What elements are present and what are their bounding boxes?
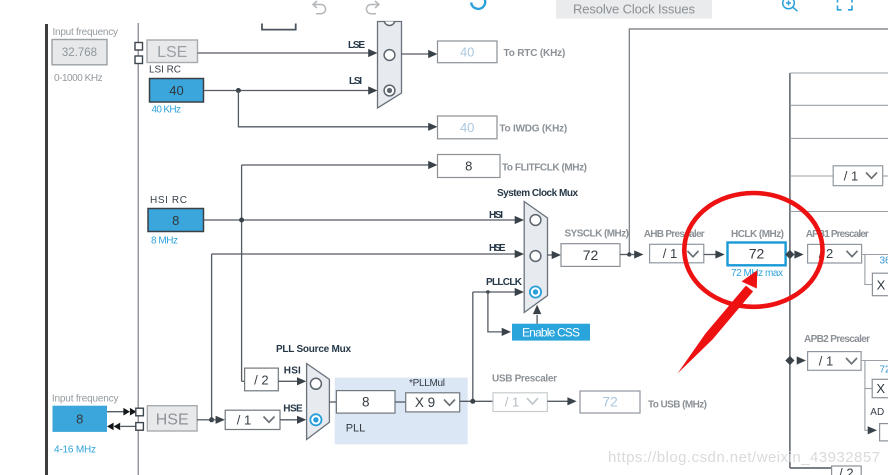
svg-text:0-1000 KHz: 0-1000 KHz: [54, 73, 103, 84]
svg-text:72: 72: [749, 246, 765, 262]
svg-text:AHB Prescaler: AHB Prescaler: [644, 229, 705, 240]
svg-text:PLL: PLL: [346, 423, 366, 435]
svg-text:40: 40: [169, 83, 183, 98]
PLL panel: [335, 378, 468, 445]
svg-text:LSE: LSE: [157, 44, 187, 61]
wire branch row 2: [790, 104, 888, 106]
wire LSI to RTC mux: [204, 90, 370, 92]
refresh icon: [471, 0, 485, 9]
wire APB1 out: [862, 254, 888, 256]
box PLL /2: [245, 368, 279, 391]
zoom-in icon: [783, 0, 798, 11]
wire PLLCLK to system mux: [473, 291, 516, 293]
mux RTC clipped third radio: [384, 22, 394, 26]
wire RTC mux output: [402, 53, 430, 55]
box LSE: [147, 40, 198, 63]
box 32.768: [52, 40, 107, 65]
svg-text:8: 8: [362, 395, 370, 410]
box To FLITFCLK value 8: [438, 155, 501, 178]
box HSI RC 8: [148, 209, 204, 232]
wire HSE riser: [211, 254, 213, 420]
radio HSI input PLL: [310, 378, 321, 389]
svg-text:*PLLMul: *PLLMul: [409, 378, 445, 389]
dropdown APB2 /1: [808, 352, 862, 371]
box HSE input frequency 8: [53, 406, 108, 432]
radio HSI input: [530, 215, 541, 226]
svg-text:72: 72: [880, 365, 888, 376]
wire HSE to input lower: [121, 425, 136, 427]
wire HSI riser (FLITF to PLL /2): [241, 165, 243, 381]
svg-text:8: 8: [76, 412, 83, 427]
svg-text:/ 2: / 2: [254, 373, 268, 388]
svg-text:36: 36: [880, 256, 888, 267]
wire PLL out to USB junction: [460, 400, 493, 402]
wire HSE box out: [197, 419, 212, 421]
button Enable CSS: [512, 324, 590, 341]
svg-text:PLL Source Mux: PLL Source Mux: [276, 344, 351, 355]
box PLL input 8: [336, 391, 395, 414]
svg-text:To USB (MHz): To USB (MHz): [648, 400, 707, 411]
wire HSE junction to /1: [212, 419, 217, 421]
svg-text:/ 1: / 1: [237, 413, 251, 428]
svg-text:40: 40: [460, 44, 474, 59]
wire AHB to HCLK: [704, 254, 716, 256]
svg-text:Input frequency: Input frequency: [53, 27, 119, 38]
wire APB2 timer branch: [865, 388, 872, 390]
svg-text:/ 1: / 1: [663, 246, 677, 261]
wire /1 to PLL mux: [280, 419, 298, 421]
svg-text:72: 72: [583, 247, 599, 263]
svg-text:HSI: HSI: [489, 210, 503, 221]
wire HSI to system mux: [204, 219, 516, 221]
wire Enable CSS up arrow: [536, 315, 538, 324]
annotation red arrow: [678, 286, 754, 374]
box LSI RC 40: [150, 79, 204, 103]
svg-text:System Clock Mux: System Clock Mux: [497, 188, 578, 199]
wire branch cortex prescaler: [790, 175, 833, 177]
svg-text:32.768: 32.768: [62, 47, 97, 59]
node HCLK diamond: [785, 250, 794, 259]
svg-text:To RTC (KHz): To RTC (KHz): [504, 48, 566, 59]
dropdown APB1 /2: [808, 244, 862, 263]
left thick border line: [45, 24, 48, 475]
svg-text:USB Prescaler: USB Prescaler: [492, 374, 557, 385]
svg-text:/ 1: / 1: [819, 354, 833, 369]
svg-text:Resolve Clock Issues: Resolve Clock Issues: [573, 2, 696, 17]
wire branch row 3: [790, 137, 888, 139]
svg-text:X: X: [877, 278, 886, 293]
wire ADC arrow: [868, 426, 877, 434]
svg-text:LSI: LSI: [349, 76, 362, 87]
svg-text:PLLCLK: PLLCLK: [486, 277, 523, 288]
radio HSE input: [530, 251, 541, 262]
box bottom /2: [832, 466, 862, 475]
mux PLL source: [307, 364, 330, 440]
wire LSI to IWDG: [238, 91, 429, 127]
dropdown cortex /1: [833, 166, 883, 186]
node SYSCLK junction: [627, 252, 631, 256]
vertical rail line: [137, 23, 139, 475]
dropdown PLLMul X9: [406, 393, 460, 412]
wire APB2 out: [861, 360, 888, 362]
svg-text:To FLITFCLK (MHz): To FLITFCLK (MHz): [502, 163, 587, 174]
box USB value 72: [580, 391, 640, 413]
box HSE: [147, 406, 197, 431]
toolbar partial box: [262, 24, 296, 30]
wire branch row 4: [790, 211, 888, 213]
svg-text:Input frequency: Input frequency: [52, 394, 119, 405]
svg-text:Enable CSS: Enable CSS: [522, 325, 580, 339]
radio LSE input: [384, 50, 395, 61]
box APB2 timer multiplier X: [872, 379, 888, 397]
wire bus bottom run: [790, 467, 832, 469]
svg-text:/ 2: / 2: [839, 466, 853, 475]
HSE pin square upper: [136, 408, 144, 416]
dropdown AHB /1: [650, 244, 704, 262]
wire USB /1 to value: [547, 400, 567, 402]
svg-text:HCLK (MHz): HCLK (MHz): [731, 229, 784, 240]
wire HCLK to bus: [786, 254, 790, 256]
svg-text:/ 1: / 1: [505, 395, 519, 410]
LSE pin square lower: [135, 56, 143, 64]
svg-text:HSE: HSE: [156, 412, 189, 429]
svg-text:4-16 MHz: 4-16 MHz: [54, 445, 96, 456]
LSE pin square upper: [135, 43, 143, 51]
svg-text:HSI RC: HSI RC: [150, 195, 187, 206]
box ADC: [880, 424, 888, 441]
node CSS branch: [486, 290, 490, 294]
node LSI junction: [236, 88, 241, 93]
box APB1 timer multiplier X: [872, 273, 888, 296]
dropdown USB /1 disabled: [493, 393, 547, 412]
svg-text:HSE: HSE: [489, 243, 506, 254]
radio LSI input selected: [384, 85, 395, 96]
wire PLL mux to PLL input: [329, 401, 336, 403]
node APB2 diamond: [785, 356, 794, 365]
HSE pin square lower: [136, 423, 144, 431]
wire LSE to RTC mux: [198, 52, 370, 54]
box To RTC value 40: [438, 41, 498, 63]
radio HSE input PLL selected: [310, 414, 321, 425]
wire HSI riser into /2: [242, 380, 245, 382]
wire to Enable CSS: [488, 292, 502, 332]
dropdown PLL /1: [225, 410, 280, 429]
box To IWDG value 40: [438, 116, 498, 139]
node PLL out junction: [470, 399, 475, 404]
mux RTC clock: [378, 22, 402, 109]
svg-text:/ 1: / 1: [844, 169, 858, 184]
wire /2 to PLL mux: [278, 380, 297, 382]
node HSE junction: [209, 417, 214, 422]
fit-screen icon: [838, 0, 853, 10]
radio PLLCLK selected: [530, 286, 541, 297]
annotation red ellipse: [684, 193, 822, 307]
svg-text:40: 40: [460, 120, 474, 135]
svg-text:72: 72: [602, 394, 618, 410]
wire to FLITFCLK: [242, 164, 429, 166]
wire branch row 1: [790, 72, 888, 74]
svg-text:SYSCLK (MHz): SYSCLK (MHz): [565, 229, 630, 240]
wire PLLCLK riser: [472, 292, 474, 401]
svg-text:8: 8: [465, 159, 472, 174]
svg-text:APB1 Prescaler: APB1 Prescaler: [806, 229, 869, 240]
resolve clock issues button: [556, 0, 712, 19]
undo icon: [313, 1, 326, 14]
wire SYSCLK to AHB: [620, 254, 629, 256]
box SYSCLK 72: [561, 244, 620, 267]
box HCLK 72 highlighted: [728, 243, 786, 266]
mux system clock: [524, 202, 547, 313]
svg-text:HSI: HSI: [284, 366, 301, 377]
wire SYSCLK riser and top run: [629, 29, 888, 255]
svg-text:LSI RC: LSI RC: [149, 65, 181, 76]
svg-text:HSE: HSE: [283, 404, 303, 415]
wire input to HSE upper: [107, 411, 124, 413]
svg-text:X 9: X 9: [415, 395, 435, 410]
wire HSE to system mux: [212, 253, 516, 255]
svg-text:8 MHz: 8 MHz: [151, 236, 178, 247]
wire APB2 elbow: [865, 361, 868, 431]
wire 8 to X9: [395, 401, 406, 403]
wire cortex out: [883, 175, 888, 177]
wire APB1 elbow to multiplier: [865, 255, 873, 285]
node HSI junction: [239, 218, 244, 223]
svg-text:AD: AD: [870, 407, 884, 418]
svg-text:To IWDG (KHz): To IWDG (KHz): [499, 124, 567, 135]
svg-text:https://blog.csdn.net/weixin_4: https://blog.csdn.net/weixin_43932857: [608, 449, 880, 466]
redo icon: [366, 1, 379, 14]
svg-text:40 KHz: 40 KHz: [152, 105, 182, 116]
bus HCLK vertical: [789, 73, 791, 468]
svg-text:APB2 Prescaler: APB2 Prescaler: [804, 334, 870, 345]
svg-text:X: X: [876, 381, 885, 396]
wire system mux to SYSCLK: [548, 254, 553, 256]
svg-text:8: 8: [172, 213, 179, 228]
svg-text:LSE: LSE: [348, 40, 365, 51]
